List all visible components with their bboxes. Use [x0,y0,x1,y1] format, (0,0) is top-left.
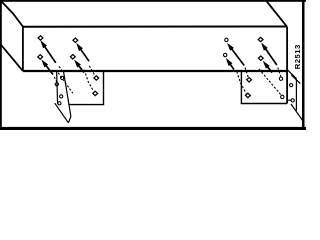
left flange hole 2 [55,83,58,86]
beam top-left depth edge [2,2,23,27]
right flange hole 2 [291,99,294,102]
frame left border [0,0,2,130]
dashed lead C2 upper [89,66,94,75]
dashed lead C1 lower [54,77,57,84]
right flange top edge outer [287,70,296,79]
right plate hole circle lower [281,95,284,98]
dashed lead C1 upper [59,66,63,72]
left flange left edge [57,71,58,104]
screw C2 lower [74,60,84,73]
frame bottom border [0,127,306,130]
beam top-right depth edge [267,2,287,27]
beam front-right edge [286,27,288,104]
hole diamond C2 lower [70,55,75,59]
beam bottom-left depth edge [1,45,23,71]
hole diamond C4 lower [258,56,263,60]
hole diamond C4 upper [258,37,263,41]
right flange hole 1 [290,84,293,87]
screw C2 upper [76,43,89,61]
left flange hole 3 [60,95,63,98]
left flange bottom diagonal [55,103,69,123]
right plate hole diamond lower [246,93,251,97]
right flange top edge inner [291,75,300,84]
left flange hole 4 [58,102,61,105]
dashed lead C2 lower [84,70,93,91]
right bracket plate [241,72,287,104]
beam front-bottom edge [23,70,287,72]
left plate hole diamond lower [93,91,98,95]
right flange inner bottom edge [287,99,291,101]
screw C3 lower [226,58,234,70]
screw C1 lower [41,59,53,74]
frame top border [0,0,306,2]
hole circle C3 upper [225,38,228,41]
hole circle C3 lower [224,53,227,56]
beam front-top edge [23,26,287,28]
svg-text:R2513: R2513 [293,44,302,69]
left flange tip edge [68,117,71,123]
screw C1 upper [40,40,56,63]
left flange right edge [63,71,71,117]
hole diamond C2 upper [73,38,78,42]
right flange right edge [295,79,297,111]
right plate hole diamond upper [247,78,252,82]
dashed lead right plate a [259,69,282,96]
screw C4 lower [263,61,272,73]
right flange bottom diagonal [291,104,303,120]
dashed lead C3 upper [245,68,249,79]
hole diamond C1 lower [38,55,43,59]
screw C4 upper [261,43,277,66]
hole diamond C1 upper [38,36,43,40]
dashed lead C4 upper tail [278,68,281,77]
beam front-left edge [22,27,24,71]
frame right border [302,0,305,130]
left bracket plate [69,71,104,105]
dashed lead left flange [58,73,73,93]
dashed lead C3 lower [237,72,247,94]
left flange hole 1 [61,76,64,79]
screw C3 upper [227,43,244,66]
left plate hole diamond upper [94,76,99,80]
label R2513 [293,44,302,69]
right plate hole circle upper [279,77,282,80]
